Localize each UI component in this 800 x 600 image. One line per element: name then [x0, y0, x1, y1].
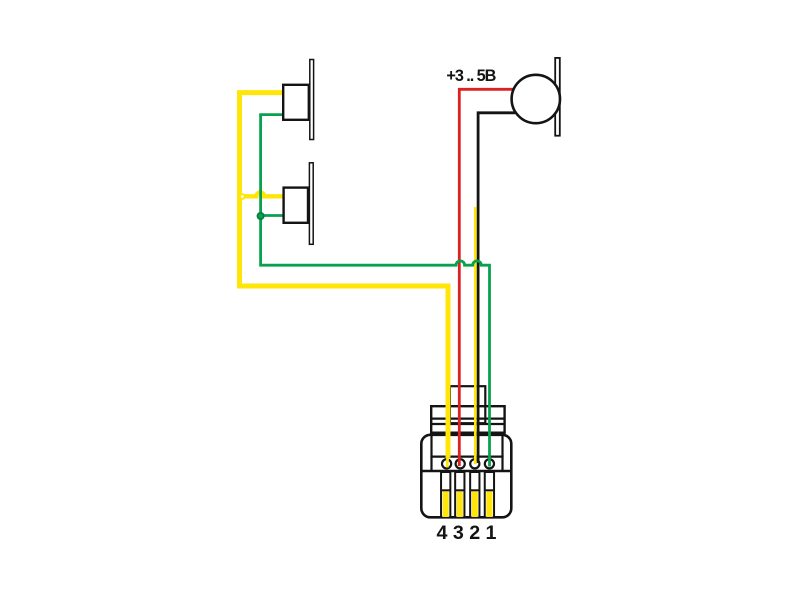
- microphone M1 capsule: [512, 75, 560, 123]
- microphone back plate: [555, 58, 560, 136]
- wire red (mic +V to pin 2): [459, 89, 514, 466]
- svg-text:1: 1: [486, 522, 497, 544]
- contact finger 4: [441, 472, 450, 518]
- svg-text:2: 2: [469, 522, 480, 544]
- contact finger 2: [470, 472, 479, 518]
- connector latch tab: [450, 386, 485, 423]
- wire yellow thin (alongside black, to pin 3): [474, 207, 477, 464]
- speaker BA1 cone plate: [310, 60, 314, 140]
- wire yellow branch to speaker 2 (hop over green): [242, 192, 284, 196]
- connector contact band left wall: [430, 434, 432, 471]
- pin circle 3: [456, 459, 465, 468]
- pin circle 4: [442, 459, 451, 468]
- wire green branch to speaker 2: [261, 214, 284, 217]
- wire yellow main (speakers to pin 4): [240, 93, 449, 458]
- connector body: [421, 435, 511, 518]
- connector upper block: [431, 406, 504, 433]
- pin circle 1: [485, 459, 494, 468]
- contact finger 1: [485, 472, 494, 518]
- svg-text:4: 4: [437, 522, 448, 544]
- connector block line lower: [430, 423, 506, 425]
- connector block line upper: [430, 418, 506, 420]
- speaker BA2 body: [284, 188, 308, 223]
- wire yellow tip into pin 4: [446, 455, 449, 468]
- svg-text:3: 3: [453, 522, 464, 544]
- yellow junction ring: [240, 194, 245, 199]
- wire black (mic signal to pin 3): [478, 113, 515, 463]
- wire green (speakers common to pin 1, hops over red and black): [261, 115, 490, 467]
- connector band bottom line: [421, 470, 513, 472]
- pin circle 2: [470, 459, 479, 468]
- contact finger 3: [455, 472, 464, 518]
- svg-text:+3 .. 5В: +3 .. 5В: [446, 67, 496, 85]
- connector contact band right wall: [501, 434, 503, 471]
- green junction dot: [257, 213, 263, 219]
- connector band top line: [430, 456, 503, 458]
- speaker BA1 body: [283, 85, 309, 120]
- speaker BA2 cone plate: [309, 163, 313, 245]
